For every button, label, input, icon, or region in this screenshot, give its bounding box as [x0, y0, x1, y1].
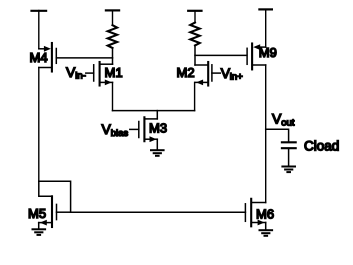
wire M2 gate to Vin+ — [212, 72, 220, 74]
svg-text:Cload: Cload — [304, 139, 339, 154]
wire node B to M9 gate — [195, 54, 247, 56]
supply VDD bar 3 (above R2) — [188, 10, 201, 12]
resistor R2 — [190, 23, 199, 46]
svg-text:M3: M3 — [149, 120, 167, 135]
wire VDD2 to R1 — [112, 10, 114, 25]
node Vout stub wire — [266, 129, 289, 142]
label Vout — [272, 111, 295, 129]
wire M2 source to tail node — [194, 82, 196, 110]
label M6 — [256, 207, 274, 222]
wire M4 drain down left side — [38, 68, 40, 182]
svg-text:M4: M4 — [30, 50, 48, 65]
wire branch to M5 drain/gate junction — [39, 181, 71, 212]
svg-text:in-: in- — [75, 71, 86, 82]
svg-text:M9: M9 — [259, 45, 277, 60]
wire M1 source to tail node — [112, 82, 114, 110]
label M3 — [149, 120, 167, 135]
wire VDD1 to M4 source — [38, 11, 40, 49]
wire tail node to M3 drain — [156, 111, 158, 119]
svg-text:M5: M5 — [28, 206, 46, 221]
label M2 — [177, 65, 195, 80]
wire M3 source to ground — [156, 139, 158, 150]
transistor M5 — [39, 196, 57, 227]
svg-text:in+: in+ — [230, 71, 243, 82]
resistor R1 — [108, 25, 117, 48]
wire R2 to M2 drain / node B — [194, 45, 196, 65]
wire left vertical to M5 drain — [39, 182, 51, 197]
wire M5 gate to junction — [57, 211, 71, 213]
ground (M6 source) — [260, 230, 273, 236]
transistor M2 — [195, 62, 212, 86]
label Cload — [304, 139, 339, 154]
svg-text:M2: M2 — [177, 65, 195, 80]
transistor M3 — [139, 117, 158, 142]
ground (Cload) — [282, 167, 295, 173]
wire Vin- to M1 gate — [86, 72, 94, 74]
label M1 — [105, 65, 123, 80]
transistor M9 — [247, 44, 266, 70]
label M4 — [30, 50, 48, 65]
label Vin+ — [221, 65, 243, 83]
wire VDD3 to R2 — [194, 11, 196, 23]
ground (M5 source) — [33, 229, 46, 235]
wire Vbias to M3 gate — [130, 128, 139, 130]
svg-text:out: out — [281, 118, 295, 129]
tail wire (M1/M2 sources to M3 drain) — [113, 110, 195, 112]
capacitor Cload — [282, 142, 296, 148]
wire M5 gate to M6 gate (long) — [71, 211, 246, 213]
wire Cload to ground — [288, 148, 290, 166]
supply VDD bar 2 (above R1) — [106, 9, 119, 11]
supply VDD bar 4 (above M9) — [259, 8, 272, 10]
wire R1 to M1 drain / node A — [112, 48, 114, 64]
ground (M3 source) — [151, 150, 164, 156]
label Vin- — [66, 64, 86, 82]
wire M9 drain to M6 drain (output rail) — [265, 65, 267, 203]
wire VDD4 to M9 source — [265, 10, 267, 48]
transistor M1 — [94, 62, 113, 86]
label Vbias — [102, 121, 129, 139]
supply VDD bar 1 (above M4) — [32, 10, 47, 12]
svg-text:bias: bias — [111, 128, 129, 139]
svg-text:M1: M1 — [105, 65, 123, 80]
svg-text:M6: M6 — [256, 207, 274, 222]
label M9 — [259, 45, 277, 60]
wire M5 source to ground — [38, 223, 40, 229]
transistor M4 — [39, 43, 57, 72]
label M5 — [28, 206, 46, 221]
wire M6 source to ground — [265, 223, 267, 231]
transistor M6 — [245, 199, 265, 227]
wire M4 gate to node A (left drain node) — [56, 57, 112, 59]
